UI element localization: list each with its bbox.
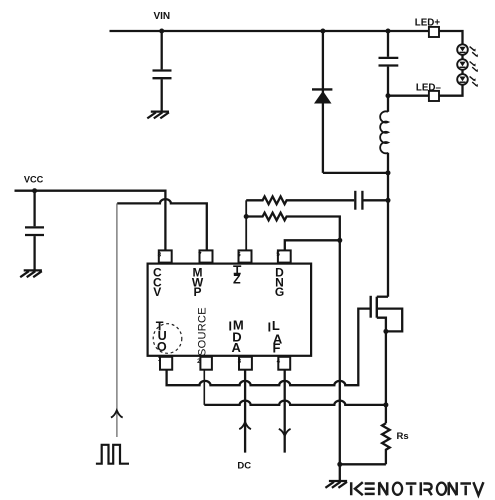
svg-text:I: I [268,320,271,334]
pulse waveform symbol [96,445,129,464]
svg-text:3: 3 [238,358,242,365]
capacitor C3 plate bottom [25,234,44,236]
svg-text:A: A [232,340,242,355]
wire pin 2 SOURCE sense with hops [203,370,205,405]
pin label FAIL vertical [268,318,283,355]
capacitor C1 plate top [153,69,172,71]
LED D2 [457,44,478,57]
svg-text:7: 7 [198,252,202,259]
svg-text:Z: Z [233,273,241,287]
pin 6 square ZT [239,250,252,262]
ground symbol at C1 [147,112,169,119]
pin label ZT vertical [0,0,1,1]
wire pin 3 ADIM down [244,370,246,453]
resistor R2 [246,213,340,241]
svg-text:Rs: Rs [397,431,409,442]
wire C2 to LED- node [387,67,389,96]
wire Rs bottom to ground node [340,463,386,465]
svg-text:DC: DC [237,460,251,471]
capacitor C4 plate left [354,191,356,210]
pin label VCC vertical [153,266,162,300]
wire LED+ to LED string down to LED- [439,31,463,96]
pin 3 square ADIM [239,357,252,370]
watermark KENOTRONTV [351,482,483,495]
wire PWM input to pin 7 with hop [117,199,207,250]
wire Q1 source down to Rs [377,318,386,424]
resistor R1 [246,197,354,205]
resistor Rs [382,423,390,464]
pin 5 square GND [278,250,291,262]
pin 2 square SOURCE [200,357,212,370]
wire VCC rail [15,191,166,251]
IC U1 body [148,264,312,356]
LED D4 [457,74,478,87]
capacitor C3 plate top [25,226,44,228]
svg-text:F: F [273,340,281,355]
svg-text:5: 5 [276,251,280,258]
transistor Q1 channel bar [376,297,378,318]
connector square LED- [429,91,439,101]
LED D3 [457,59,478,72]
svg-text:P: P [193,285,201,299]
wire VCC to cap C3 [33,191,35,227]
svg-text:V: V [153,285,161,299]
junction node LED- [386,93,391,98]
diode D1 triangle [314,91,332,104]
junction node Q1 bulk-source [383,329,388,334]
wire node G vertical to ground [339,240,341,480]
capacitor C2 plate bottom [379,64,399,66]
wire L1 to MOSFET drain [387,153,389,297]
svg-text:6: 6 [237,252,241,259]
pin 8 square VCC [159,250,172,262]
wire VIN to output cap C2 [387,31,389,57]
ground symbol at bottom [325,481,347,488]
svg-text:1: 1 [158,356,162,363]
pin label OUT vertical [156,320,167,355]
wire diode D1 branch from VIN [322,31,324,173]
junction node VCC-C3 [32,188,37,193]
pin 7 square PWM [200,250,213,262]
svg-text:VCC: VCC [24,175,44,185]
inductor L1 [380,111,388,153]
junction node VIN-D1 [320,29,325,34]
transistor Q1 gate bar [370,296,372,318]
capacitor C1 plate bottom [153,77,172,79]
wire pin 1 OUT to gate with hops [167,309,371,386]
connector square LED+ [429,27,439,37]
wire C3 to ground [33,236,35,270]
junction node SW2 [386,198,391,203]
wire VIN to input cap C1 [161,31,163,69]
junction node source-sense [383,402,388,407]
pin label PWM vertical [192,266,204,300]
wire pin 6 ZT vertical [245,200,247,250]
wire Q1 bulk loop [377,309,402,332]
junction node VIN-C1 [159,29,164,34]
wire VIN top rail [110,30,430,32]
junction node Rs-ground [337,462,342,467]
wire C4 to node SW2 [364,199,389,201]
junction node ZT-R2 [244,214,249,219]
svg-text:2: 2 [197,358,201,365]
ground symbol at C3 [20,270,42,277]
wire LED- return to node SW [388,95,429,97]
wire C1 to ground [161,79,163,111]
wire pin 5 GND to node G [285,240,340,250]
arrow chevron down on FAIL line [279,429,291,436]
pin label GND vertical [275,266,284,300]
capacitor C2 plate top [379,57,399,59]
pin 1 square OUT [160,357,172,370]
wire Q1 drain connection [377,296,388,298]
svg-text:G: G [275,285,284,299]
svg-text:LED+: LED+ [415,18,441,29]
svg-text:LED–: LED– [416,83,442,94]
svg-text:8: 8 [158,251,162,258]
pin 4 square FAIL [278,357,290,370]
pin label ADIM vertical [229,317,244,355]
junction node SW [386,170,391,175]
dashed circle annotation on OUT [153,324,182,354]
wire LED- node to inductor L1 [387,96,389,112]
svg-text:SOURCE: SOURCE [197,307,209,356]
diode D1 cathode bar [312,88,332,90]
wire diode anode to node SW [323,172,388,174]
junction node VIN-C2 [386,29,391,34]
capacitor C4 plate right [361,191,363,210]
pin label ZT serif I glyph [233,266,241,273]
svg-text:4: 4 [277,358,281,365]
wire PWM source thin line [116,203,118,437]
arrow chevron on PWM line [111,410,123,417]
junction node G-R2 [337,238,342,243]
wire pin 4 FAIL down [284,370,286,453]
arrow chevron up on ADIM line [239,422,251,429]
svg-text:VIN: VIN [153,11,170,22]
